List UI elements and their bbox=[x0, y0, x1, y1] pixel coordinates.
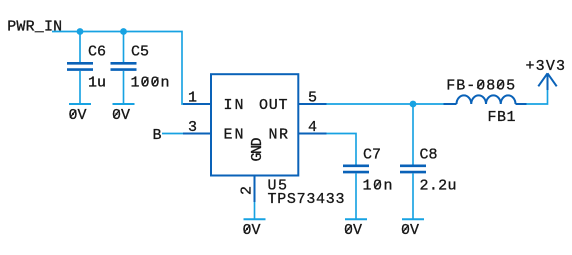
junction at C8 tap bbox=[410, 101, 417, 108]
svg-text:IN: IN bbox=[224, 97, 244, 114]
svg-text:FB1: FB1 bbox=[488, 109, 516, 126]
wire C8 lower bbox=[412, 173, 414, 218]
svg-text:1u: 1u bbox=[88, 75, 106, 92]
svg-text:+3V3: +3V3 bbox=[526, 58, 566, 75]
svg-text:100n: 100n bbox=[131, 75, 170, 92]
pin 4 stub NR bbox=[298, 133, 326, 135]
ground 0V under pin 2 bbox=[243, 219, 266, 239]
svg-text:GND: GND bbox=[249, 138, 266, 162]
capacitor C7 bbox=[343, 166, 369, 172]
svg-text:C5: C5 bbox=[131, 44, 149, 61]
ground 0V under C5 bbox=[112, 104, 135, 124]
wire OUT rail to power arrow bbox=[327, 103, 445, 105]
wire NR to C7 bbox=[327, 134, 357, 165]
svg-text:B: B bbox=[153, 127, 162, 144]
regulator U5 body bbox=[211, 74, 298, 175]
wire C6 upper bbox=[79, 32, 81, 63]
svg-text:2.2u: 2.2u bbox=[420, 178, 457, 195]
svg-text:1: 1 bbox=[188, 90, 197, 107]
ground 0V under C7 bbox=[344, 219, 367, 239]
junction at C6 tap bbox=[77, 28, 84, 35]
pin 3 stub EN bbox=[183, 133, 211, 135]
svg-text:3: 3 bbox=[188, 119, 197, 136]
capacitor C5 bbox=[111, 63, 137, 69]
svg-text:C8: C8 bbox=[420, 147, 438, 164]
wire pin2 to ground bbox=[254, 202, 256, 219]
svg-text:2: 2 bbox=[239, 186, 256, 195]
wire PWR_IN horizontal top rail then down to pin 1 bbox=[52, 32, 184, 105]
wire C5 upper bbox=[123, 32, 125, 63]
svg-text:4: 4 bbox=[308, 119, 317, 136]
wire C6 lower bbox=[79, 71, 81, 104]
wire C8 upper bbox=[412, 104, 414, 165]
wire after FB1 to power arrow bbox=[526, 89, 548, 104]
svg-text:C7: C7 bbox=[363, 147, 381, 164]
capacitor C6 bbox=[67, 63, 93, 69]
svg-text:NR: NR bbox=[269, 127, 289, 144]
svg-text:FB-0805: FB-0805 bbox=[446, 78, 515, 95]
pin 1 stub IN bbox=[183, 103, 211, 105]
svg-text:OUT: OUT bbox=[259, 97, 288, 114]
power symbol +3V3 arrow bbox=[538, 73, 556, 90]
junction at C5 tap bbox=[120, 28, 127, 35]
svg-text:TPS73433: TPS73433 bbox=[268, 191, 345, 208]
svg-text:5: 5 bbox=[308, 90, 317, 107]
pin 2 stub GND bbox=[254, 176, 256, 203]
ground 0V under C8 bbox=[401, 219, 424, 239]
svg-text:PWR_IN: PWR_IN bbox=[7, 19, 62, 36]
svg-text:C6: C6 bbox=[88, 44, 106, 61]
wire C7 lower bbox=[355, 173, 357, 218]
ground 0V under C6 bbox=[69, 104, 92, 124]
pin 5 stub OUT bbox=[298, 103, 326, 105]
svg-text:EN: EN bbox=[224, 127, 244, 144]
ferrite bead FB1 bbox=[444, 95, 527, 104]
svg-text:10n: 10n bbox=[363, 178, 393, 195]
wire B to EN bbox=[162, 133, 184, 135]
wire C5 lower bbox=[123, 71, 125, 104]
capacitor C8 bbox=[400, 166, 426, 172]
